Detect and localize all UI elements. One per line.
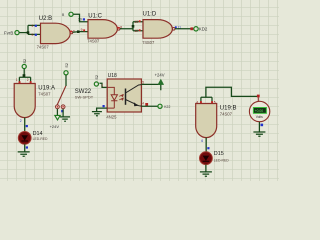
ground under SW22 xyxy=(60,117,70,121)
wire U18 pin2 to ground xyxy=(97,108,108,111)
pin end square U18 pin4 xyxy=(145,103,148,106)
svg-text:+0.00: +0.00 xyxy=(255,109,264,113)
svg-text:+24V: +24V xyxy=(50,124,60,129)
and-gate U1:D xyxy=(143,20,175,39)
svg-text:4N25: 4N25 xyxy=(106,114,117,119)
wire junction vertical to U2:B inputs xyxy=(28,25,41,34)
pin 1 label U19:A xyxy=(16,78,21,83)
svg-text:1: 1 xyxy=(101,83,103,87)
ground under D14 xyxy=(18,152,30,156)
wire U1:C output to U1:D inputs xyxy=(120,22,143,31)
power symbol +24V arrow xyxy=(155,73,165,85)
voltmeter body xyxy=(249,101,269,121)
svg-text:9: 9 xyxy=(81,28,83,32)
svg-text:2: 2 xyxy=(20,119,22,123)
background grid xyxy=(0,0,279,181)
svg-text:LED-RED: LED-RED xyxy=(33,137,48,141)
pin dots U19:B inputs xyxy=(196,100,215,104)
wire terminal to SW22 pole xyxy=(65,75,67,86)
node junction on wire xyxy=(77,30,80,33)
pin 4 label U2:B xyxy=(32,24,37,28)
wire U19:B input bar xyxy=(201,97,212,103)
svg-text:74S07: 74S07 xyxy=(37,44,50,49)
wire voltmeter to ground xyxy=(258,122,260,132)
pin end square voltmeter top xyxy=(257,95,260,98)
svg-text:U2:B: U2:B xyxy=(39,16,52,22)
pin 11 label U1:D output xyxy=(175,25,181,29)
wire FvrB to junction xyxy=(19,32,28,34)
pin 10 label U1:C xyxy=(78,18,85,22)
switch SW22 lever xyxy=(57,86,66,105)
svg-text:1: 1 xyxy=(16,78,18,82)
svg-text:4: 4 xyxy=(32,24,34,28)
svg-text:U1:C: U1:C xyxy=(88,14,102,20)
pin 9 label U1:C xyxy=(81,28,86,32)
svg-text:6: 6 xyxy=(201,139,203,143)
svg-text:12: 12 xyxy=(134,29,138,33)
power terminal +24V triangle xyxy=(55,115,60,120)
wire U19:B output to D15 xyxy=(205,138,207,152)
svg-text:FvrB: FvrB xyxy=(4,30,13,35)
ground under U18 pin2 xyxy=(92,112,102,116)
optocoupler U18 body xyxy=(107,79,141,112)
svg-text:13: 13 xyxy=(134,20,138,24)
wire voltmeter stub xyxy=(257,97,259,101)
node junction FvrB xyxy=(27,31,30,34)
wire U19:A output to D14 xyxy=(24,118,26,132)
pin 2 label U18 xyxy=(103,105,105,107)
LED D15 xyxy=(200,152,213,165)
svg-text:S2: S2 xyxy=(65,63,69,68)
svg-text:10: 10 xyxy=(78,18,82,22)
svg-text:LED-RED: LED-RED xyxy=(214,158,229,162)
terminal FvrB xyxy=(4,30,19,35)
wire D15 to ground xyxy=(205,165,207,172)
and-gate U19:B vertical xyxy=(196,104,217,138)
svg-text:D14: D14 xyxy=(33,131,43,137)
pin 13 label U1:D xyxy=(134,20,140,24)
switch SW22 contacts xyxy=(56,105,66,109)
pin 8 label U1:C output xyxy=(118,26,123,30)
wire terminal to U18 pin 1 xyxy=(100,83,108,87)
svg-text:KD2: KD2 xyxy=(199,27,208,32)
wire terminal to U19:A input bar xyxy=(19,69,30,84)
svg-text:74S07: 74S07 xyxy=(142,40,155,45)
wire U19:B net to voltmeter xyxy=(206,87,257,97)
svg-text:74S07: 74S07 xyxy=(38,91,51,96)
ground under D15 xyxy=(200,172,212,176)
svg-text:5: 5 xyxy=(32,33,34,37)
terminal S2 above U18 xyxy=(94,75,99,86)
node junction U1:D input xyxy=(132,25,135,28)
pin end square KD2 xyxy=(190,27,193,30)
svg-text:Volts: Volts xyxy=(256,115,263,119)
pin 2 blue label output xyxy=(20,119,28,127)
pin 6 label U2:B output xyxy=(70,30,75,34)
and-gate U1:C xyxy=(88,20,120,39)
pin 6 blue label output xyxy=(201,139,209,149)
svg-text:S2: S2 xyxy=(23,59,27,64)
wire U1:D output to terminal KD2 xyxy=(175,28,193,30)
wire right contact to ground xyxy=(62,109,64,117)
svg-text:U18: U18 xyxy=(108,73,117,79)
svg-text:D15: D15 xyxy=(214,151,224,157)
wire U18 pin5 to +24V xyxy=(142,84,161,90)
terminal S2 above U19:A xyxy=(22,59,27,69)
node label square xyxy=(23,74,26,77)
terminal B xyxy=(62,12,73,17)
terminal K22 xyxy=(158,104,171,109)
wire U2:B output to U1:C pin 9 xyxy=(73,31,88,34)
pin 2 label U19:A xyxy=(27,78,32,83)
svg-text:SW-SPDT: SW-SPDT xyxy=(75,94,94,99)
svg-text:4: 4 xyxy=(142,102,144,106)
terminal KD2 xyxy=(194,27,208,32)
wire U18 pin4 to terminal K22 xyxy=(141,105,157,107)
svg-text:+24V: +24V xyxy=(155,73,165,78)
wire left contact to +24V terminal xyxy=(56,109,58,116)
terminal S2 above SW22 xyxy=(64,63,69,75)
pin 5 label U2:B xyxy=(32,33,37,37)
and-gate U2:B xyxy=(41,23,73,43)
svg-text:2: 2 xyxy=(27,78,29,82)
svg-text:74S07: 74S07 xyxy=(220,111,233,116)
wire terminal B to U1:C pin 10 xyxy=(73,14,88,21)
svg-text:S2: S2 xyxy=(95,75,99,80)
ground under voltmeter xyxy=(253,132,265,136)
svg-text:K22: K22 xyxy=(164,105,170,109)
pin 12 label U1:D xyxy=(134,29,140,33)
svg-text:U1:D: U1:D xyxy=(143,12,157,18)
wire D14 to ground xyxy=(24,144,26,152)
LED D14 xyxy=(18,132,31,145)
svg-text:74S07: 74S07 xyxy=(87,38,100,43)
and-gate U19:A vertical xyxy=(14,84,35,118)
